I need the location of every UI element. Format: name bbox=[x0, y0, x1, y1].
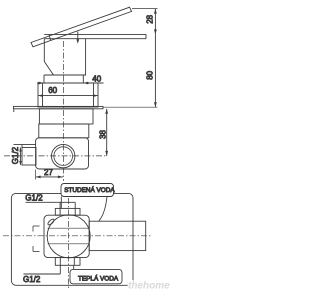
hot stub bbox=[55, 258, 80, 266]
cold stub bbox=[55, 208, 80, 215]
mounting plate bbox=[11, 193, 133, 285]
bottom vertical centerline bbox=[67, 198, 69, 289]
G1/2 label top bbox=[25, 194, 75, 209]
svg-text:27: 27 bbox=[44, 168, 53, 177]
dimension 40 bbox=[37, 74, 104, 84]
handle cap plate bbox=[44, 34, 146, 38]
valve body side bbox=[36, 138, 89, 169]
dimension 28 bbox=[145, 9, 157, 35]
cold water callout bbox=[61, 184, 115, 221]
lever joint tick bbox=[49, 35, 51, 41]
dimension 38 bbox=[99, 109, 109, 156]
front centerline bbox=[62, 41, 64, 181]
bore lines bbox=[48, 228, 90, 244]
mixer body bbox=[44, 39, 85, 75]
cartridge axis arrow bbox=[76, 32, 79, 44]
outlet block bbox=[89, 221, 146, 250]
G1/2 dim side bbox=[11, 146, 21, 165]
svg-text:thehome: thehome bbox=[128, 281, 170, 292]
extension line top bbox=[132, 8, 158, 10]
svg-text:38: 38 bbox=[99, 130, 108, 139]
extension line bottom bbox=[103, 106, 158, 108]
outlet circle inner bbox=[54, 147, 73, 166]
neck bbox=[44, 75, 83, 83]
bottom horizontal centerline bbox=[3, 235, 153, 237]
svg-text:G1/2: G1/2 bbox=[23, 275, 41, 284]
svg-text:28: 28 bbox=[145, 14, 154, 23]
svg-text:G1/2: G1/2 bbox=[11, 146, 20, 164]
svg-text:TEPLÁ VODA: TEPLÁ VODA bbox=[78, 273, 119, 282]
svg-text:STUDENÁ VODA: STUDENÁ VODA bbox=[64, 185, 115, 194]
wall flange bbox=[14, 106, 104, 112]
outlet circle outer bbox=[52, 144, 75, 167]
svg-text:80: 80 bbox=[145, 70, 154, 79]
valve body bottom view bbox=[44, 215, 89, 257]
svg-text:60: 60 bbox=[48, 86, 57, 95]
side centerline bbox=[4, 155, 108, 157]
cartridge nut bbox=[39, 124, 89, 138]
dimension 80 bbox=[145, 34, 157, 107]
dimension 27 bbox=[36, 168, 63, 179]
svg-text:G1/2: G1/2 bbox=[25, 194, 43, 203]
base block 60 bbox=[38, 83, 98, 107]
inlet stub side bbox=[14, 145, 37, 165]
G1/2 label bottom bbox=[23, 266, 60, 285]
housing box bbox=[39, 109, 93, 124]
valve circle bbox=[47, 215, 90, 258]
dimension 60 bbox=[38, 86, 98, 97]
lever handle bbox=[31, 7, 132, 47]
hidden edges bbox=[33, 226, 40, 252]
hot water callout bbox=[70, 266, 122, 284]
screw slot bbox=[47, 218, 55, 226]
svg-text:40: 40 bbox=[92, 74, 101, 83]
